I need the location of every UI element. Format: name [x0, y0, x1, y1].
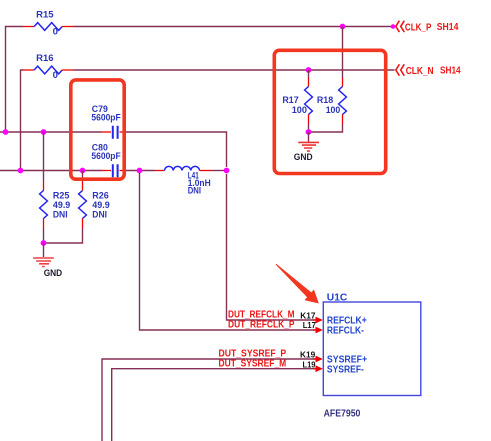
net label DUT_REFCLK_M	[228, 309, 295, 320]
annotation arrow pointing at U1C	[276, 264, 319, 304]
off-page connector CLK_P SH14	[396, 21, 459, 34]
pin arrow REFCLK-	[314, 327, 323, 334]
resistor R16	[23, 53, 74, 81]
svg-text:0: 0	[53, 26, 58, 37]
svg-text:AFE7950: AFE7950	[324, 408, 361, 419]
node junction x=20.5 on C80 net	[18, 168, 24, 174]
pin arrow REFCLK+	[314, 317, 323, 324]
pin name SYSREF-	[327, 364, 364, 375]
svg-text:0: 0	[53, 70, 58, 81]
node CLK_P endpoint	[391, 24, 396, 29]
svg-text:R15: R15	[36, 9, 54, 20]
net label DUT_SYSREF_P	[219, 349, 287, 360]
pin name REFCLK+	[327, 316, 367, 327]
svg-text:SH14: SH14	[437, 22, 459, 33]
svg-text:U1C: U1C	[327, 293, 348, 304]
node junction R25/R26 bottom	[41, 240, 47, 246]
resistor R15	[23, 9, 74, 37]
capacitor C80	[91, 142, 126, 177]
IC block U1C	[323, 293, 421, 396]
net label DUT_SYSREF_M	[219, 359, 287, 370]
resistor R17	[282, 70, 312, 132]
pin name REFCLK-	[327, 326, 364, 337]
wire CLK_N rail	[74, 69, 395, 71]
svg-text:DUT_SYSREF_M: DUT_SYSREF_M	[219, 359, 287, 370]
svg-text:GND: GND	[294, 152, 313, 163]
part value AFE7950	[324, 408, 361, 419]
ground GND1	[33, 243, 62, 279]
wire DUT_SYSREF_P from bottom edge up and right	[102, 359, 314, 441]
node junction CLK_N / R17	[306, 67, 312, 73]
pin number L19	[303, 360, 316, 370]
pin arrow SYSREF+	[314, 356, 323, 363]
pin number L17	[303, 320, 316, 330]
wire DUT_REFCLK_P from C80 net down and right	[140, 173, 315, 330]
svg-text:100: 100	[292, 105, 307, 116]
svg-text:5600pF: 5600pF	[91, 151, 120, 162]
node junction R17/R18 bottom	[306, 129, 312, 135]
svg-text:DNI: DNI	[53, 209, 68, 220]
wire R26 bottom L to junction	[44, 229, 83, 244]
pin number K19	[300, 350, 315, 360]
pin arrow SYSREF-	[314, 365, 323, 372]
capacitor C79	[91, 104, 126, 139]
wire CLK_N rail left corner	[21, 70, 24, 171]
resistor R25	[40, 132, 71, 229]
svg-text:DNI: DNI	[92, 209, 107, 220]
svg-text:GND: GND	[44, 268, 63, 279]
annotation rectangle around R17/R18	[274, 50, 385, 173]
wire C79 net to corner, down to L41 right junction	[126, 132, 227, 167]
annotation rectangle around C79/C80	[71, 80, 124, 179]
svg-text:100: 100	[326, 105, 341, 116]
svg-text:L17: L17	[303, 320, 316, 330]
svg-text:R16: R16	[36, 53, 53, 64]
resistor R26	[79, 171, 110, 229]
inductor L41	[155, 166, 212, 196]
ground GND2	[294, 132, 319, 163]
pin name SYSREF+	[327, 354, 367, 365]
wire C80 net to L41	[126, 170, 155, 172]
wire R18 bottom to R17 bottom	[309, 124, 343, 132]
svg-text:SYSREF-: SYSREF-	[327, 364, 364, 375]
svg-text:CLK_P: CLK_P	[405, 22, 432, 33]
net label DUT_REFCLK_P	[228, 319, 295, 330]
node junction x=43.5 on C79 net	[41, 129, 47, 135]
node junction x=5.5 on C79 net	[3, 129, 9, 135]
svg-text:5600pF: 5600pF	[91, 113, 120, 124]
wire C80 net y=170.5	[0, 170, 102, 172]
wire C79 net y=132	[0, 131, 102, 133]
wire L41 right to junction	[212, 170, 227, 172]
node junction x=139.5 on C80 net	[137, 168, 143, 174]
node junction CLK_P / R18	[340, 24, 346, 30]
node junction x=82.5 on C80 net	[80, 168, 86, 174]
wire CLK_P rail left corner	[6, 27, 24, 133]
svg-text:CLK_N: CLK_N	[406, 66, 434, 77]
svg-text:DUT_REFCLK_P: DUT_REFCLK_P	[228, 319, 295, 330]
off-page connector CLK_N SH14	[396, 64, 461, 77]
node junction x=226.5 L41 right	[224, 168, 230, 174]
svg-text:REFCLK-: REFCLK-	[327, 326, 364, 337]
wire DUT_REFCLK_M from L41 junction down and right	[227, 174, 315, 320]
resistor R18	[317, 27, 347, 125]
wire DUT_SYSREF_M from bottom edge up and right	[112, 369, 314, 441]
pin number K17	[300, 311, 315, 321]
svg-text:SH14: SH14	[440, 66, 461, 77]
wire CLK_P rail	[74, 26, 394, 28]
svg-text:K19: K19	[300, 350, 315, 360]
wire R25 bottom to junction	[43, 229, 45, 244]
svg-text:DNI: DNI	[188, 186, 202, 197]
